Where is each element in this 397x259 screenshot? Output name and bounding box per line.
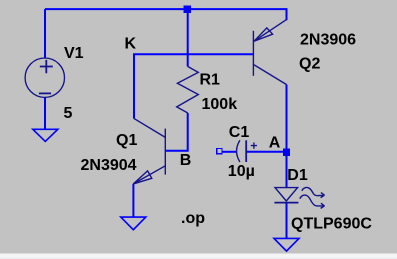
transistor Q2 body bar (PNP)	[252, 31, 254, 76]
wire R1 bottom lead to Q1 base	[165, 113, 187, 151]
transistor Q2 emitter arrow	[254, 28, 273, 41]
transistor Q1 emitter diagonal	[133, 166, 165, 184]
wire V1 top lead	[44, 9, 46, 58]
wire top rail from V1 to Q2 emitter corner	[45, 9, 287, 20]
transistor Q2 emitter diagonal	[254, 20, 286, 42]
node A junction square	[283, 149, 290, 156]
wire node K horizontal to Q2 base	[134, 54, 253, 118]
capacitor C1 plus sign	[251, 143, 257, 149]
wire Q1 emitter to ground	[132, 184, 134, 217]
svg-text:10µ: 10µ	[228, 163, 255, 180]
wire V1 bottom lead	[44, 97, 46, 129]
transistor Q1 collector diagonal	[134, 118, 166, 137]
voltage source V1 circle	[25, 58, 64, 97]
capacitor C1 open terminal square	[217, 149, 222, 154]
status bar strip	[0, 254, 397, 259]
junction node square on top rail	[184, 6, 192, 14]
svg-text:C1: C1	[229, 124, 250, 141]
resistor R1 zigzag	[177, 67, 199, 114]
svg-text:.op: .op	[181, 210, 205, 227]
LED D1 triangle	[275, 188, 298, 201]
ground under Q1	[121, 217, 146, 230]
LED D1 cathode bar	[274, 202, 298, 204]
wire Q2 collector down through node A to D1	[286, 85, 288, 188]
svg-text:B: B	[180, 152, 192, 169]
transistor Q1 emitter arrow	[133, 171, 152, 184]
wire R1 top lead from junction	[187, 9, 189, 66]
svg-text:A: A	[269, 135, 281, 152]
transistor Q1 body bar (mirrored NPN)	[164, 129, 166, 175]
svg-text:100k: 100k	[202, 96, 238, 113]
svg-text:R1: R1	[200, 72, 221, 89]
capacitor C1 straight plate	[245, 140, 247, 162]
svg-text:Q2: Q2	[299, 56, 320, 73]
svg-text:QTLP690C: QTLP690C	[291, 216, 372, 233]
svg-text:K: K	[125, 36, 137, 53]
svg-text:Q1: Q1	[116, 132, 137, 149]
svg-text:2N3904: 2N3904	[81, 157, 137, 174]
ground under D1	[274, 238, 299, 251]
V1 minus sign	[39, 92, 51, 94]
V1 plus sign	[40, 60, 53, 73]
svg-text:5: 5	[64, 105, 73, 122]
LED D1 light arrow 2	[300, 195, 325, 208]
svg-text:V1: V1	[64, 45, 84, 62]
wire C1 left lead	[222, 151, 237, 153]
wire C1 right lead to node A	[246, 151, 286, 153]
ground under V1	[33, 129, 58, 141]
wire D1 cathode to ground	[286, 203, 288, 239]
svg-text:2N3906: 2N3906	[300, 32, 356, 49]
LED D1 light arrow 1	[302, 187, 325, 197]
transistor Q2 collector diagonal	[254, 65, 287, 85]
capacitor C1 curved plate	[237, 140, 240, 162]
svg-text:D1: D1	[287, 167, 308, 184]
